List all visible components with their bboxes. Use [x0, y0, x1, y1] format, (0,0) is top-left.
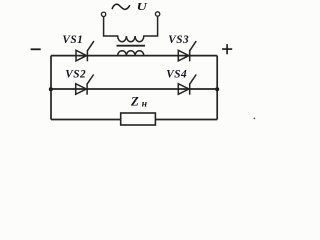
thyristor VS1 — [76, 41, 94, 61]
wire: left vertical bus — [50, 56, 52, 120]
primary terminal (right) — [155, 12, 159, 16]
svg-text:Z: Z — [130, 94, 139, 108]
load Zn box — [121, 113, 156, 125]
primary terminal (left) — [101, 12, 105, 16]
AC source label ~ — [112, 4, 129, 9]
wire: middle rail (VS2 / VS4 row) — [51, 88, 217, 90]
thyristor VS3 — [178, 41, 196, 61]
wire: bottom rail (load row) — [51, 119, 217, 121]
svg-text:VS4: VS4 — [166, 68, 187, 80]
wire: right vertical bus — [216, 56, 218, 120]
transformer T1 primary winding — [104, 16, 158, 41]
thyristor VS2 — [76, 75, 94, 95]
node: left junction dot — [49, 87, 53, 91]
svg-text:VS3: VS3 — [168, 34, 189, 46]
plus terminal label — [222, 44, 232, 54]
svg-text:н: н — [142, 99, 148, 110]
stray speck artifact — [254, 118, 256, 120]
thyristor VS4 — [178, 75, 196, 95]
minus terminal label — [31, 48, 41, 50]
svg-text:VS1: VS1 — [62, 34, 83, 46]
wire: top rail (VS1 / secondary / VS3 row) — [51, 55, 217, 57]
svg-text:U: U — [137, 2, 148, 13]
svg-text:VS2: VS2 — [65, 69, 86, 81]
node: right junction dot — [215, 87, 219, 91]
transformer core — [117, 45, 146, 47]
transformer secondary winding — [118, 51, 144, 56]
